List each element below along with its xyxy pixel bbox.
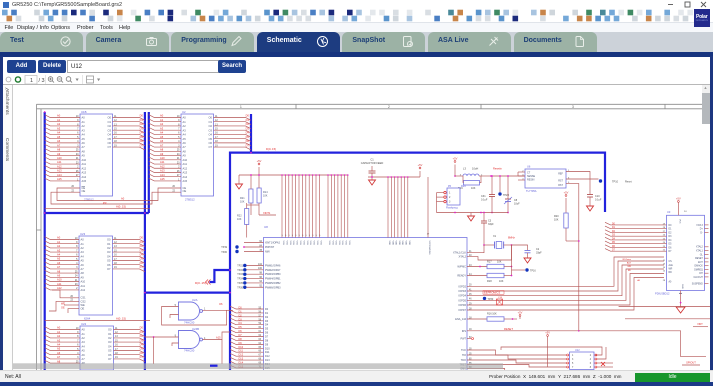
svg-text:A15: A15: [82, 179, 87, 183]
svg-text:A11: A11: [160, 160, 165, 164]
svg-text:33pF: 33pF: [536, 252, 542, 255]
svg-text:XINT1/IOPA2: XINT1/IOPA2: [265, 242, 281, 245]
svg-text:TP16: TP16: [530, 270, 536, 273]
svg-text:W/PMC: W/PMC: [457, 266, 466, 269]
svg-text:O6: O6: [219, 302, 223, 306]
svg-text:TP21: TP21: [237, 265, 243, 268]
svg-text:TP25: TP25: [237, 282, 243, 285]
svg-text:D6: D6: [140, 351, 144, 355]
svg-text:VDD: VDD: [408, 241, 410, 246]
svg-text:RESIN: RESIN: [527, 179, 535, 182]
svg-text:D(0..15): D(0..15): [195, 281, 206, 285]
svg-text:A12: A12: [57, 164, 62, 168]
wires IOPD2-IOPD7: [467, 257, 664, 286]
wire bundle A0-A15 to U2: [149, 115, 181, 118]
svg-text:D3: D3: [140, 338, 144, 342]
DSP pins XINT1/PDPINT/NMI: [244, 242, 264, 244]
svg-text:A0: A0: [160, 114, 164, 118]
svg-text:VDD: VDD: [395, 241, 397, 246]
wire REF to C10: [566, 172, 590, 195]
vertical scrollbar: [702, 85, 710, 93]
svg-text:D7: D7: [140, 265, 144, 269]
svg-text:VO3.3: VO3.3: [696, 225, 703, 227]
svg-text:CAPACITOR FEED: CAPACITOR FEED: [361, 161, 384, 165]
svg-text:A9: A9: [57, 152, 61, 156]
resistor R17 10K: [467, 266, 487, 268]
svg-text:10K: 10K: [240, 200, 245, 203]
svg-text:A15: A15: [160, 177, 165, 181]
svg-text:A11: A11: [183, 162, 188, 166]
wire SPIOUT: [579, 331, 706, 357]
svg-text:IOPD2: IOPD2: [458, 285, 466, 288]
svg-text:D4: D4: [140, 131, 144, 135]
svg-text:O0: O0: [107, 238, 111, 242]
wire bundle A0-A15 to U1B: [45, 115, 80, 118]
svg-text:/ 3: / 3: [39, 78, 45, 84]
canvas top border: [3, 83, 710, 86]
svg-text:ALE: ALE: [627, 262, 632, 265]
svg-text:PWM6/IOPB3: PWM6/IOPB3: [265, 286, 281, 289]
svg-text:O7: O7: [209, 145, 213, 149]
RAM U23 6264: [79, 236, 113, 315]
svg-text:R18: R18: [487, 280, 492, 283]
svg-text:D6: D6: [140, 139, 144, 143]
svg-text:Reset: Reset: [625, 181, 632, 184]
bus D vertical (x=144.9): [144, 112, 146, 370]
bus horizontal lower-left: [44, 212, 149, 214]
svg-text:A1: A1: [57, 118, 61, 122]
EPROM U2 27B512: [181, 114, 214, 196]
svg-text:A1: A1: [82, 332, 86, 336]
svg-text:A9: A9: [82, 154, 86, 158]
svg-text:A15: A15: [57, 177, 62, 181]
svg-text:U24B: U24B: [192, 327, 199, 331]
NAND gate U24B 74HC00: [179, 331, 200, 349]
svg-text:EOT: EOT: [698, 262, 703, 264]
svg-text:A2: A2: [82, 336, 86, 340]
svg-text:10uF: 10uF: [514, 202, 520, 205]
svg-text:10K: 10K: [499, 280, 504, 283]
svg-text:TP23: TP23: [237, 273, 243, 276]
wire bundle O0-O7 from U1B to D bus: [113, 118, 145, 121]
svg-text:DMACK: DMACK: [695, 265, 704, 268]
svg-text:RST: RST: [558, 184, 563, 187]
bus A(0..15) left vertical: [44, 112, 46, 370]
svg-text:DMREQ: DMREQ: [694, 269, 703, 271]
capacitor C8 10uF: [507, 176, 509, 199]
svg-text:9: 9: [292, 235, 293, 237]
svg-text:O7: O7: [108, 357, 112, 361]
svg-text:U8: U8: [264, 225, 268, 229]
svg-text:O2: O2: [107, 246, 111, 250]
svg-text:8MHz: 8MHz: [508, 236, 515, 240]
DSP PWM pins with test points: [245, 265, 264, 267]
svg-text:A7: A7: [57, 355, 61, 359]
svg-text:D-: D-: [700, 232, 703, 234]
connector P6 Flashprog: [447, 188, 460, 205]
svg-text:PWT: PWT: [460, 338, 466, 341]
svg-text:D1: D1: [140, 240, 144, 244]
svg-text:1: 1: [30, 78, 33, 84]
schematic canvas: [13, 85, 710, 370]
svg-text:VCCP/WDDIS: VCCP/WDDIS: [428, 241, 430, 256]
svg-text:RESET: RESET: [504, 327, 513, 331]
svg-text:U3: U3: [667, 210, 671, 214]
svg-text:VDD: VDD: [398, 241, 400, 246]
svg-text:PWM5/IOPB2: PWM5/IOPB2: [265, 282, 281, 285]
svg-text:D12: D12: [239, 354, 244, 357]
svg-text:D5: D5: [246, 135, 250, 139]
svg-text:A6: A6: [81, 263, 85, 267]
svg-text:O3: O3: [107, 250, 111, 254]
wires NAND U2A loop: [162, 307, 227, 326]
svg-text:D6: D6: [140, 261, 144, 265]
svg-text:A6: A6: [57, 351, 61, 355]
svg-text:A10: A10: [81, 280, 86, 284]
svg-text:R17: R17: [487, 261, 492, 264]
svg-text:A0: A0: [82, 116, 86, 120]
svg-text:1: 1: [240, 105, 242, 109]
svg-text:A8: A8: [183, 149, 187, 153]
svg-text:D5: D5: [140, 135, 144, 139]
svg-text:VDD: VDD: [388, 241, 390, 246]
svg-text:A6: A6: [82, 141, 86, 145]
svg-text:D2: D2: [246, 122, 250, 126]
resistor R18 10K: [467, 275, 487, 277]
svg-text:D4: D4: [246, 131, 250, 135]
resistor R19 10K: [464, 181, 480, 186]
svg-text:3: 3: [572, 105, 574, 109]
VSS rail 2: [320, 174, 349, 176]
svg-text:9: 9: [302, 235, 303, 237]
bus entry D(0..15) step: [210, 270, 231, 282]
svg-text:D0: D0: [140, 236, 144, 240]
svg-text:U12: U12: [575, 349, 580, 352]
svg-text:A0: A0: [57, 236, 61, 240]
svg-text:9: 9: [312, 235, 313, 237]
svg-text:A3: A3: [82, 128, 86, 132]
svg-text:A1: A1: [82, 120, 86, 124]
svg-text:VDD: VDD: [401, 241, 403, 246]
svg-text:O4: O4: [107, 254, 111, 258]
svg-text:REF: REF: [558, 173, 563, 176]
svg-text:VSS: VSS: [313, 241, 315, 246]
svg-text:VSS: VSS: [341, 241, 343, 246]
tab bar: [0, 32, 713, 52]
svg-text:U1B: U1B: [81, 110, 87, 114]
USB U3 PDIUSBD12: [667, 215, 705, 290]
svg-text:A12: A12: [183, 166, 188, 170]
svg-text:PDIUSBD12: PDIUSBD12: [655, 292, 670, 296]
svg-text:INT: INT: [699, 273, 703, 275]
svg-text:A7: A7: [82, 357, 86, 361]
svg-text:A10: A10: [57, 156, 62, 160]
svg-text:D13: D13: [239, 358, 244, 361]
svg-text:Flashprog: Flashprog: [446, 206, 458, 210]
svg-text:VSS: VSS: [345, 241, 347, 246]
svg-text:10K: 10K: [471, 187, 476, 190]
wire RESET / IRS: [467, 330, 579, 332]
svg-text:NMI: NMI: [265, 251, 270, 254]
svg-text:9: 9: [289, 235, 290, 237]
capacitor C14: [497, 299, 503, 305]
svg-text:A6: A6: [57, 139, 61, 143]
svg-text:A5: A5: [57, 257, 61, 261]
svg-text:VSS: VSS: [292, 241, 294, 246]
svg-text:A10: A10: [183, 158, 188, 162]
wire RST to TP10: [566, 178, 599, 180]
test points TP19 TP20: [235, 245, 238, 248]
wire fan D0-D7 USB: [605, 222, 667, 225]
svg-text:OE: OE: [61, 307, 65, 310]
svg-text:TDI: TDI: [462, 354, 466, 357]
svg-text:D1: D1: [140, 330, 144, 334]
svg-text:O1: O1: [209, 120, 213, 124]
svg-text:RESET: RESET: [695, 258, 703, 260]
svg-text:102: 102: [258, 263, 263, 266]
svg-text:A14: A14: [183, 175, 188, 179]
svg-text:VSS: VSS: [328, 241, 330, 246]
wire XINT1: [247, 204, 259, 206]
svg-text:D10: D10: [239, 346, 244, 349]
svg-text:A0: A0: [57, 114, 61, 118]
svg-text:READY: READY: [457, 275, 466, 278]
wire bundle A0-A8 to U22: [45, 327, 80, 330]
resistor R16 10K: [467, 318, 487, 320]
svg-text:O3: O3: [108, 128, 112, 132]
JTAG staircase wires: [467, 350, 567, 355]
svg-text:A5: A5: [82, 137, 86, 141]
wire RST-bar long vertical: [566, 184, 579, 331]
svg-text:D0: D0: [246, 114, 250, 118]
svg-text:27B512: 27B512: [185, 198, 195, 202]
svg-text:A0: A0: [183, 116, 187, 120]
svg-text:A8: A8: [57, 359, 61, 363]
svg-text:RD: RD: [669, 272, 673, 274]
svg-text:A13: A13: [82, 171, 87, 175]
bottom navy strip: [0, 382, 713, 386]
svg-text:0.1uF: 0.1uF: [481, 198, 488, 201]
svg-text:74HC00: 74HC00: [184, 349, 195, 353]
svg-text:OE: OE: [82, 189, 86, 193]
svg-text:D11: D11: [239, 350, 244, 353]
svg-text:A7: A7: [160, 143, 164, 147]
svg-text:XINT: XINT: [697, 323, 703, 326]
svg-text:A0: A0: [81, 238, 85, 242]
svg-text:O5: O5: [107, 259, 111, 263]
svg-text:PWM1/IOPA6: PWM1/IOPA6: [265, 265, 281, 268]
svg-text:27B512: 27B512: [84, 198, 94, 202]
VDD rail and pins: [368, 176, 420, 178]
svg-text:D2: D2: [140, 334, 144, 338]
svg-text:VSS: VSS: [316, 241, 318, 246]
svg-text:TP19: TP19: [221, 246, 227, 249]
svg-text:O0: O0: [108, 116, 112, 120]
svg-text:O2: O2: [108, 336, 112, 340]
svg-text:IOPD7: IOPD7: [458, 309, 466, 312]
svg-text:VDD: VDD: [391, 241, 393, 246]
svg-text:9: 9: [299, 235, 300, 237]
svg-text:U22: U22: [81, 322, 87, 326]
svg-text:SENSE: SENSE: [527, 175, 536, 178]
svg-text:A10: A10: [82, 158, 87, 162]
svg-text:SUSPEND: SUSPEND: [692, 283, 703, 285]
svg-text:D3: D3: [140, 248, 144, 252]
svg-text:9: 9: [316, 235, 317, 237]
svg-text:A5: A5: [183, 137, 187, 141]
svg-text:XTAL1: XTAL1: [696, 250, 704, 253]
svg-text:O2: O2: [209, 124, 213, 128]
svg-text:VSS: VSS: [289, 241, 291, 246]
svg-text:IOPD4: IOPD4: [458, 295, 466, 298]
svg-text:VSS: VSS: [285, 241, 287, 246]
test point TP10 Reset: [599, 179, 602, 182]
svg-text:EEPROM/CS: EEPROM/CS: [484, 291, 500, 295]
svg-text:O7: O7: [107, 267, 111, 271]
resistor R14 10K: [257, 188, 261, 203]
wire XTAL1: [467, 245, 484, 253]
svg-text:A1: A1: [160, 118, 164, 122]
svg-text:A9: A9: [81, 275, 85, 279]
svg-text:A4: A4: [82, 133, 86, 137]
svg-text:VSS: VSS: [306, 241, 308, 246]
svg-text:A9: A9: [160, 152, 164, 156]
svg-text:+5V: +5V: [257, 159, 262, 163]
svg-text:A2: A2: [57, 122, 61, 126]
svg-text:CT: CT: [527, 172, 531, 175]
svg-text:GND: GND: [681, 284, 683, 289]
test point TP30: [483, 297, 486, 300]
svg-text:10K: 10K: [554, 219, 559, 222]
svg-text:+5V: +5V: [418, 163, 423, 167]
mosaic strip: [0, 0, 713, 24]
svg-text:A12: A12: [57, 286, 62, 290]
svg-text:R19: R19: [461, 185, 466, 188]
svg-text:D13: D13: [265, 359, 270, 362]
svg-text:O3: O3: [209, 128, 213, 132]
DSP data bus D0-D15 fan: [230, 306, 264, 309]
wires NAND U24B: [145, 336, 179, 338]
wire CS/WE/OE loop U23: [52, 290, 79, 298]
svg-text:TP30: TP30: [488, 298, 494, 301]
connector JP1: [570, 352, 594, 370]
DSP U8 TMS320: [264, 238, 468, 371]
svg-text:D2: D2: [140, 122, 144, 126]
svg-text:O6: O6: [108, 141, 112, 145]
svg-text:D7: D7: [140, 143, 144, 147]
svg-text:A4: A4: [81, 254, 85, 258]
svg-text:+5V: +5V: [676, 197, 681, 201]
svg-text:XINT1: XINT1: [263, 211, 271, 215]
svg-text:10uH: 10uH: [472, 167, 478, 171]
svg-text:9: 9: [282, 235, 283, 237]
svg-text:+5V: +5V: [564, 191, 569, 195]
svg-text:A13: A13: [160, 169, 165, 173]
NAND gate U2A 74HC00: [179, 302, 200, 320]
svg-text:U2: U2: [182, 110, 186, 114]
svg-text:A11: A11: [57, 282, 62, 286]
svg-text:74HC00: 74HC00: [184, 321, 195, 325]
status bar: [0, 370, 713, 382]
VCCP/WDDIS pin: [427, 177, 429, 238]
svg-text:A3: A3: [57, 338, 61, 342]
svg-text:A3: A3: [57, 248, 61, 252]
svg-text:+5V: +5V: [453, 157, 458, 161]
svg-text:+5V: +5V: [545, 331, 550, 335]
capacitor C3 33pF: [483, 213, 485, 222]
svg-text:A3: A3: [57, 126, 61, 130]
svg-text:A8: A8: [82, 149, 86, 153]
svg-text:A6: A6: [183, 141, 187, 145]
svg-text:WE: WE: [81, 303, 85, 307]
svg-text:A4: A4: [183, 133, 187, 137]
svg-text:9: 9: [309, 235, 310, 237]
svg-text:9: 9: [295, 235, 296, 237]
svg-text:IOPD6: IOPD6: [458, 304, 466, 307]
svg-text:9: 9: [285, 235, 286, 237]
svg-text:VCC: VCC: [679, 219, 681, 224]
resistor R22 10K: [245, 209, 249, 225]
svg-text:A6: A6: [160, 139, 164, 143]
svg-text:PWM3/IOPB0: PWM3/IOPB0: [265, 273, 281, 276]
svg-text:VSS: VSS: [348, 241, 350, 246]
toolbar: [0, 57, 713, 86]
svg-text:IRS: IRS: [462, 330, 467, 333]
svg-text:O1: O1: [108, 120, 112, 124]
svg-text:A0: A0: [82, 328, 86, 332]
svg-text:D2: D2: [140, 244, 144, 248]
svg-text:A7: A7: [82, 145, 86, 149]
wire bundle O0-O7 from U23 to D bus: [113, 240, 145, 243]
svg-text:A10: A10: [57, 278, 62, 282]
EPROM U1B 27B512: [80, 114, 113, 196]
svg-text:TP2R: TP2R: [503, 194, 509, 197]
svg-text:A5: A5: [160, 135, 164, 139]
svg-text:WR: WR: [627, 266, 631, 268]
svg-text:A4: A4: [57, 253, 61, 257]
selection highlight band: [13, 363, 503, 369]
svg-text:10K: 10K: [497, 261, 502, 264]
svg-text:IOPD3: IOPD3: [458, 290, 466, 293]
RAM U22 6264: [80, 326, 114, 370]
svg-text:A14: A14: [82, 175, 87, 179]
svg-text:U23: U23: [80, 232, 86, 236]
no-connect X mark: [601, 362, 605, 366]
Polar logo: [694, 9, 710, 27]
svg-text:A2: A2: [57, 334, 61, 338]
svg-text:D0: D0: [140, 326, 144, 330]
svg-text:VSS: VSS: [302, 241, 304, 246]
svg-text:RST: RST: [558, 180, 563, 183]
svg-text:O5: O5: [108, 137, 112, 141]
svg-text:10K: 10K: [263, 194, 268, 197]
svg-text:A8: A8: [57, 269, 61, 273]
capacitor C2 33pF: [512, 245, 528, 251]
svg-text:A14: A14: [57, 173, 62, 177]
svg-text:A(0..15): A(0..15): [116, 317, 126, 321]
svg-text:A11: A11: [82, 162, 87, 166]
svg-text:D6: D6: [246, 139, 250, 143]
svg-text:A5: A5: [57, 135, 61, 139]
sidebar: [3, 85, 13, 370]
svg-text:A2: A2: [57, 244, 61, 248]
svg-text:O0: O0: [108, 328, 112, 332]
svg-text:O1: O1: [108, 332, 112, 336]
svg-text:2: 2: [388, 105, 390, 109]
svg-text:0.1uF: 0.1uF: [595, 199, 602, 202]
svg-text:A4: A4: [57, 131, 61, 135]
left window border: [0, 56, 3, 382]
